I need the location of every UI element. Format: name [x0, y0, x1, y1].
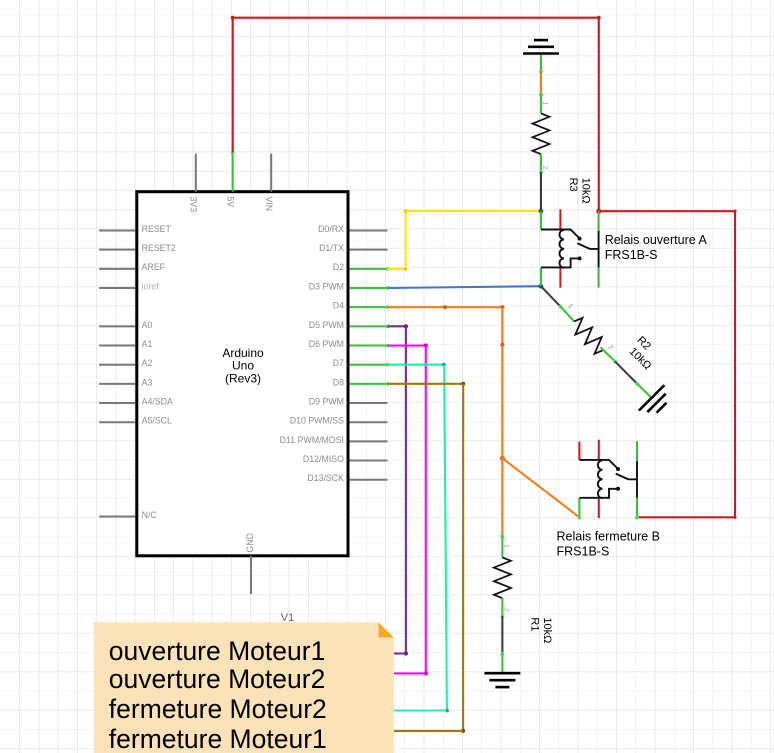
lead R1 pin2 [501, 598, 505, 618]
svg-text:D8: D8 [333, 377, 344, 387]
svg-text:1: 1 [566, 303, 574, 311]
pin GND [245, 533, 255, 594]
wire olive D8 [388, 382, 466, 733]
svg-text:ouverture Moteur2: ouverture Moteur2 [109, 664, 326, 694]
pin number 2 of R3 [541, 166, 548, 170]
junction node relayA-coil/R2 [539, 284, 544, 289]
wire red to relay B [638, 516, 735, 518]
lead R2 pin2 [601, 347, 617, 363]
pin D9 PWM [309, 396, 388, 406]
pin number 2 of R1 [503, 608, 510, 612]
svg-text:RESET2: RESET2 [142, 243, 176, 253]
svg-text:A3: A3 [142, 377, 153, 387]
label Relais fermeture B [557, 530, 661, 559]
value 10k&#937; of R1 [541, 617, 553, 643]
svg-text:N/C: N/C [142, 510, 158, 520]
resistor R3 [533, 113, 550, 154]
ground GND3 (bottom) [484, 673, 520, 687]
pin A5/SCL [99, 416, 172, 426]
svg-text:3V3: 3V3 [189, 197, 199, 213]
label R2 [634, 334, 652, 352]
pin A1 [99, 339, 152, 349]
wire orange GND1-R3 [539, 72, 543, 97]
wire black R2-ground [615, 361, 639, 385]
svg-text:FRS1B-S: FRS1B-S [605, 248, 658, 262]
svg-text:ioref: ioref [142, 281, 160, 291]
svg-text:R1: R1 [529, 617, 541, 631]
label R1 [529, 617, 541, 631]
svg-text:V1: V1 [281, 612, 294, 624]
lead R3 pin2 [539, 154, 543, 174]
svg-text:D11 PWM/MOSI: D11 PWM/MOSI [280, 435, 344, 445]
svg-text:1: 1 [541, 102, 548, 106]
pin RESET2 [99, 243, 176, 253]
svg-text:D1/TX: D1/TX [319, 243, 344, 253]
pin D0/RX [318, 224, 387, 234]
svg-text:D2: D2 [333, 262, 344, 272]
label R3 [567, 178, 579, 192]
wire red right [599, 210, 735, 212]
pin D13/SCK [307, 473, 387, 483]
wire red down to relay A [598, 17, 600, 212]
svg-text:Relais ouverture A: Relais ouverture A [605, 233, 708, 247]
svg-text:fermeture Moteur1: fermeture Moteur1 [109, 724, 327, 753]
lead R3 pin1 [540, 95, 542, 114]
wire black junction-R2 [541, 286, 563, 308]
relay K1 Relais ouverture A [541, 209, 599, 287]
svg-text:FRS1B-S: FRS1B-S [557, 544, 610, 558]
relay K2 Relais fermeture B [578, 440, 639, 520]
pin D3 PWM [309, 281, 390, 291]
note V1 folded corner [379, 622, 394, 637]
svg-text:Relais fermeture B: Relais fermeture B [557, 530, 661, 544]
pin RESET [99, 224, 171, 234]
pin AREF [99, 262, 166, 272]
resistor R2 [568, 315, 609, 356]
bend dot red top-left [231, 16, 235, 20]
svg-text:RESET: RESET [142, 224, 172, 234]
pin ioref [99, 281, 159, 291]
pin D1/TX [319, 243, 387, 253]
wire magenta D6 [388, 343, 428, 675]
svg-text:2: 2 [503, 608, 510, 612]
svg-text:A2: A2 [142, 358, 153, 368]
svg-text:(Rev3): (Rev3) [225, 372, 261, 386]
svg-text:D6 PWM: D6 PWM [309, 339, 344, 349]
bend dot red right-top [733, 210, 736, 213]
svg-text:10kΩ: 10kΩ [580, 178, 592, 204]
svg-text:D5 PWM: D5 PWM [309, 320, 344, 330]
svg-text:GND: GND [245, 533, 255, 553]
ground GND2 (rotated 45) [639, 385, 674, 420]
svg-text:Uno: Uno [232, 359, 254, 373]
wire orange to R1 [501, 458, 505, 538]
value 10k&#937; of R3 [580, 178, 592, 204]
label Relais ouverture A [605, 233, 708, 262]
label V1 [281, 612, 294, 624]
pin N/C [99, 510, 157, 520]
svg-text:A1: A1 [142, 339, 153, 349]
svg-text:10kΩ: 10kΩ [541, 617, 553, 643]
Arduino Uno label [222, 346, 264, 386]
pin A2 [99, 358, 152, 368]
svg-text:D13/SCK: D13/SCK [307, 473, 344, 483]
junction red node [596, 209, 601, 214]
wire yellow D2 [388, 209, 541, 270]
svg-text:10kΩ: 10kΩ [627, 346, 654, 373]
wire black R1-ground [501, 616, 505, 655]
svg-text:5V: 5V [226, 197, 236, 208]
pin number 2 of R2 [606, 344, 614, 352]
pin D2 [333, 262, 390, 272]
pin D5 PWM [309, 320, 390, 330]
wire spring-green D7 [388, 363, 449, 713]
ground GND1 (top, flipped) [523, 40, 559, 53]
pin number 1 of R2 [566, 303, 574, 311]
pin number 1 of R1 [503, 544, 510, 548]
note V1 body [94, 622, 394, 753]
Arduino Uno U1 body [137, 192, 348, 556]
pin D10 PWM/SS [290, 416, 388, 426]
pin number 1 of R3 [541, 102, 548, 106]
pin D11 PWM/MOSI [280, 435, 388, 445]
wire orange D4 horizontal [388, 305, 505, 309]
junction node R3/relayA/D2 [539, 209, 544, 214]
svg-text:ouverture Moteur1: ouverture Moteur1 [109, 636, 326, 666]
pin VIN [264, 154, 274, 212]
pin A0 [99, 320, 152, 330]
wire 5V red up [232, 18, 234, 153]
wire blue D3 [388, 286, 541, 288]
pin D8 [333, 377, 390, 387]
svg-text:D4: D4 [333, 301, 344, 311]
wire black R3-junction [540, 172, 542, 211]
svg-text:D3 PWM: D3 PWM [309, 281, 344, 291]
bend dot red right-bottom [733, 516, 736, 519]
pin A4/SDA [99, 396, 173, 406]
wire purple D5 [388, 324, 409, 655]
pin D6 PWM [309, 339, 390, 349]
junction orange node [500, 456, 505, 461]
svg-text:fermeture Moteur2: fermeture Moteur2 [109, 694, 327, 724]
pin D7 [333, 358, 390, 368]
svg-text:VIN: VIN [264, 197, 274, 212]
wire orange to relay B [502, 458, 579, 517]
resistor R1 [494, 557, 511, 598]
lead GND3 [501, 654, 503, 673]
svg-text:A0: A0 [142, 320, 153, 330]
pin D12/MISO [303, 454, 388, 464]
svg-text:D7: D7 [333, 358, 344, 368]
value 10k&#937; of R2 [627, 346, 654, 373]
svg-text:A4/SDA: A4/SDA [142, 396, 173, 406]
wire red right-down [734, 211, 736, 517]
pin 5V [226, 151, 236, 208]
lead GND1 [539, 55, 543, 74]
svg-text:1: 1 [503, 544, 510, 548]
svg-text:D12/MISO: D12/MISO [303, 454, 344, 464]
svg-text:AREF: AREF [142, 262, 166, 272]
lead R2 pin1 [561, 307, 575, 322]
svg-text:2: 2 [541, 166, 548, 170]
svg-text:R3: R3 [567, 178, 579, 192]
wire orange D4 vertical [500, 307, 504, 458]
lead GND2 [637, 384, 651, 398]
svg-text:2: 2 [606, 344, 614, 352]
bend dot red top-right [597, 16, 601, 20]
wire red top [232, 17, 599, 19]
svg-text:A5/SCL: A5/SCL [142, 416, 172, 426]
pin D4 [333, 301, 390, 311]
svg-text:D9 PWM: D9 PWM [309, 396, 344, 406]
svg-text:D10 PWM/SS: D10 PWM/SS [290, 416, 344, 426]
note V1 text [109, 636, 327, 753]
pin 3V3 [189, 154, 199, 213]
pin A3 [99, 377, 152, 387]
lead R1 pin1 [501, 537, 503, 558]
svg-text:D0/RX: D0/RX [318, 224, 344, 234]
